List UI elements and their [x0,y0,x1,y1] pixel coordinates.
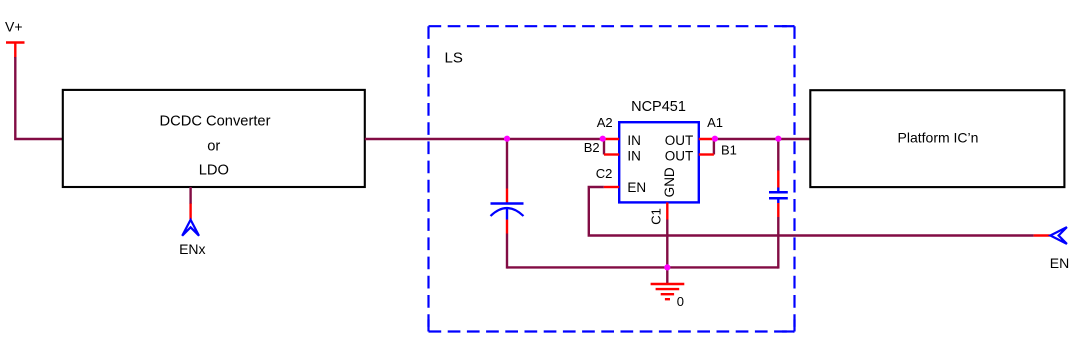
svg-text:OUT: OUT [665,148,694,163]
pin A2 (IN) stub [603,138,620,140]
wire U1 OUT to Platform block [715,138,810,140]
wire EN rail red tail [1034,234,1050,236]
wire rail to input cap [506,139,508,189]
ground rail wire [507,266,778,268]
wire A1 to B1 [713,139,715,155]
wire GND pin to ground rail [666,220,668,269]
block Platform IC'n [810,90,1064,187]
svg-text:LS: LS [445,50,463,67]
svg-text:A2: A2 [597,115,613,130]
junction output cap top [775,136,781,142]
svg-text:C2: C2 [596,166,613,181]
pin C1 (GND) stub [666,202,668,219]
svg-text:DCDC Converter: DCDC Converter [160,114,271,130]
svg-text:C1: C1 [649,208,664,225]
junction input cap top [504,136,510,142]
wire A2 to B2 [603,139,605,155]
pin B2 (IN) stub [604,153,619,155]
junction pin A2 [600,136,606,142]
svg-text:ENx: ENx [179,241,205,257]
LS boundary dashed box [429,26,795,331]
svg-text:GND: GND [662,167,677,197]
off-page connector ENx [182,204,199,236]
svg-text:Platform IC’n: Platform IC’n [898,130,979,146]
wire DCDC output to U1 IN (net rail) [365,138,603,140]
wire DCDC enable stub [189,187,191,204]
off-page connector EN [1050,227,1067,244]
pin B1 (OUT) stub [699,153,714,155]
wire input cap to ground rail [506,234,508,269]
wire EN pin to EN rail [589,187,1034,236]
block DCDC Converter / LDO [63,90,365,187]
svg-text:EN: EN [627,180,646,195]
svg-text:EN: EN [1050,255,1069,271]
wire output cap to ground rail [777,217,779,269]
wire V+ to DCDC input [15,57,63,139]
ground symbol stem [666,267,668,283]
pin C2 (EN) stub [604,186,619,188]
capacitor output [769,171,788,218]
ground 0 symbol [651,284,685,299]
svg-text:IN: IN [627,133,641,148]
svg-text:B2: B2 [584,140,600,155]
svg-text:or: or [207,138,220,154]
svg-text:B1: B1 [721,143,737,158]
junction pin A1 [712,136,718,142]
capacitor input (polarized) [491,189,524,234]
svg-text:IN: IN [627,148,641,163]
svg-text:LDO: LDO [199,163,229,179]
svg-text:OUT: OUT [665,133,694,148]
IC U1 NCP451 [619,99,699,202]
svg-text:A1: A1 [707,115,723,130]
svg-text:V+: V+ [5,19,23,35]
junction ground rail [664,264,670,270]
svg-text:NCP451: NCP451 [631,99,686,115]
svg-text:0: 0 [677,294,684,309]
pin A1 (OUT) stub [699,138,715,140]
power symbol V+ [6,43,25,59]
wire rail to output cap [777,139,779,171]
